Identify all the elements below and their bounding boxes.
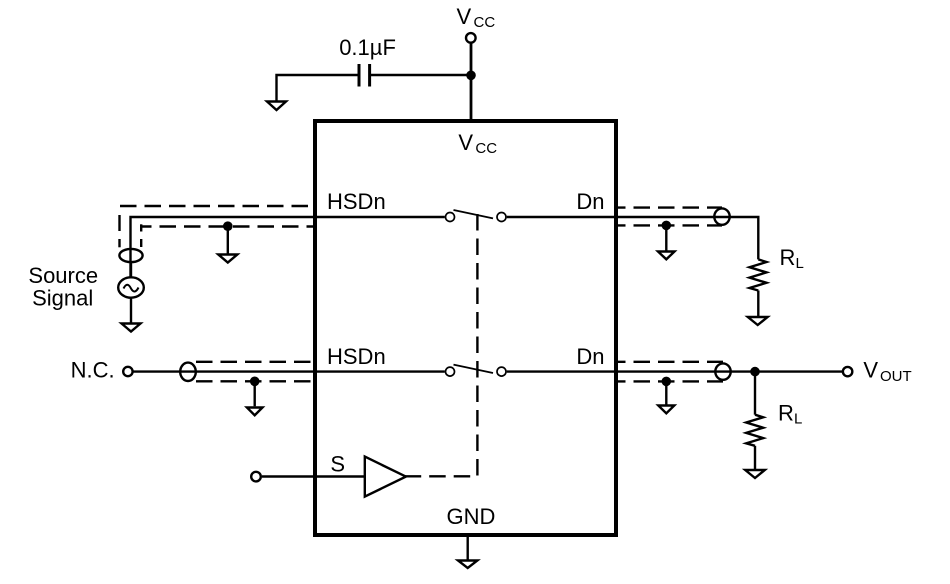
resistor RL2 (746, 415, 763, 446)
svg-text:L: L (794, 410, 802, 427)
ground (bottom-left shield) (253, 381, 255, 406)
svg-text:Dn: Dn (576, 344, 604, 369)
wire S input (262, 475, 365, 477)
shield end ellipse (top-right) (714, 208, 729, 224)
wire GND stem (467, 535, 469, 560)
node shield tap dot (top-left) (223, 221, 233, 231)
switch SW1 blade (454, 210, 494, 218)
resistor RL1 (750, 259, 767, 290)
svg-text:R: R (780, 245, 796, 270)
svg-text:0.1µF: 0.1µF (339, 35, 396, 60)
wire cap left segment (277, 75, 358, 101)
buffer amplifier (365, 457, 406, 497)
wire bottom row left (133, 370, 445, 372)
shield dashed bottom-right lower (616, 380, 723, 382)
node shield tap dot (top-right) (662, 221, 672, 231)
svg-text:CC: CC (474, 14, 496, 31)
ground (RL2) (745, 470, 765, 478)
node VCC junction dot (466, 71, 476, 81)
terminal N.C. (123, 367, 132, 376)
shield end ellipse (N.C. cable) (180, 363, 196, 381)
svg-text:V: V (863, 358, 878, 383)
svg-text:OUT: OUT (880, 368, 912, 385)
net VCC label (top) (457, 4, 496, 31)
shield end ellipse (source cable) (119, 249, 142, 262)
switch SW1 contacts (446, 213, 507, 222)
svg-text:HSDn: HSDn (327, 189, 386, 214)
svg-text:HSDn: HSDn (327, 344, 386, 369)
switch SW2 blade (454, 365, 494, 373)
ground (top-right shield) (665, 225, 667, 251)
svg-text:Dn: Dn (576, 189, 604, 214)
net label VOUT (863, 358, 911, 385)
terminal S input (251, 472, 261, 482)
svg-text:S: S (330, 452, 345, 477)
shield dashed top-left inner vertical dashes (140, 224, 142, 247)
svg-text:Source: Source (28, 263, 98, 288)
pin label VCC (inside box) (458, 130, 497, 157)
svg-text:GND: GND (447, 504, 496, 529)
ground (bottom-right shield) (665, 381, 667, 405)
node shield tap dot (bottom-left) (250, 377, 260, 387)
wire source to ground (130, 298, 132, 323)
wire RL2 branch (754, 372, 756, 415)
wire RL1 to ground (757, 291, 759, 317)
shield dashed bottom-right upper (616, 361, 723, 363)
svg-text:Signal: Signal (32, 286, 93, 311)
svg-text:L: L (796, 255, 804, 272)
label RL1 (780, 245, 804, 272)
shield dashed top-right lower (616, 224, 722, 226)
shield dashed top-left outer vertical dashes (118, 215, 120, 247)
svg-text:R: R (778, 400, 794, 425)
control dashed line buffer to switches (405, 213, 478, 476)
shield dashed bottom-left lower (196, 380, 315, 382)
wire cap right segment (371, 74, 471, 76)
terminal VOUT (843, 367, 852, 376)
wire HSDn top row left (131, 217, 316, 278)
wire top row switch to box right (507, 216, 616, 218)
switch SW2 contacts (446, 367, 507, 376)
wire VCC vertical into box (470, 43, 473, 121)
source signal AC source (118, 262, 144, 298)
capacitor C1 0.1uF plates (359, 64, 370, 87)
ground (top-left shield) (227, 227, 229, 255)
svg-text:N.C.: N.C. (71, 357, 115, 382)
terminal VCC (466, 33, 476, 43)
wire Dn bottom row to VOUT (616, 370, 842, 372)
wire RL2 to ground (754, 446, 756, 470)
shield dashed top-right upper (616, 206, 722, 208)
svg-text:CC: CC (475, 140, 497, 157)
wire bottom row switch to box right (507, 370, 616, 372)
ground (capacitor) (267, 102, 286, 111)
node shield tap dot (bottom-right) (662, 377, 672, 387)
svg-text:V: V (458, 130, 473, 155)
ground (RL1) (748, 317, 768, 325)
wire Dn top row right (616, 217, 758, 259)
svg-text:V: V (457, 4, 472, 29)
shield dashed bottom-left upper (196, 361, 315, 363)
label Source Signal (28, 263, 98, 311)
shield dashed top-left outer horizontal (120, 205, 315, 207)
label RL2 (778, 400, 802, 427)
ground (source) (122, 324, 141, 332)
node VOUT/RL2 junction dot (750, 367, 760, 377)
ground (GND pin) (458, 561, 477, 569)
IC box U1 (315, 121, 616, 535)
shield end ellipse (bottom-right) (715, 363, 730, 379)
shield dashed top-left inner horizontal (142, 225, 316, 227)
wire top row inside left to switch (315, 216, 445, 218)
